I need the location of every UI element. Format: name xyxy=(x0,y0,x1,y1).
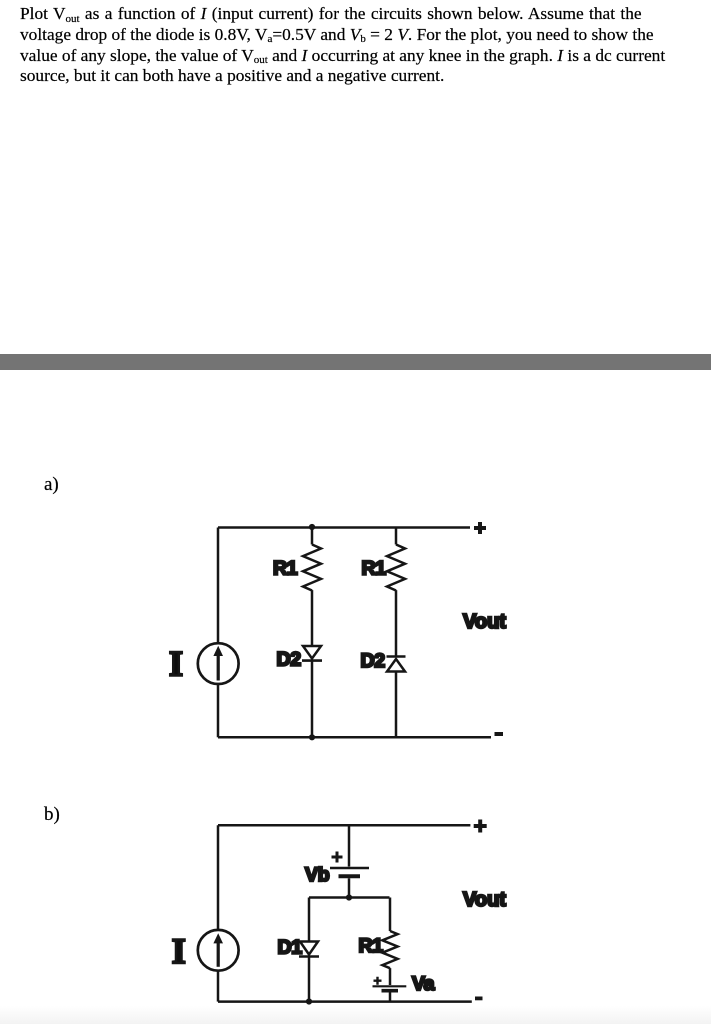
svg-text:D1: D1 xyxy=(278,937,303,959)
wire: branch1 middle xyxy=(311,590,314,646)
svg-text:I: I xyxy=(172,931,186,971)
svg-text:I: I xyxy=(169,644,183,684)
wire: D1 branch upper xyxy=(308,898,311,942)
wire: horizontal splitter b xyxy=(309,896,390,899)
wire: below Va xyxy=(389,992,392,1002)
wire: R1 branch upper xyxy=(389,898,392,932)
wire: branch2 middle xyxy=(395,590,398,656)
svg-text:D2: D2 xyxy=(277,649,302,671)
wire: branch2 lower xyxy=(395,672,398,738)
wire: top rail b xyxy=(218,824,470,827)
section label b) xyxy=(44,804,60,826)
wire: middle branch top stub b xyxy=(348,825,351,866)
bottom faint strip xyxy=(0,1006,711,1024)
minus terminal b xyxy=(475,997,483,1001)
battery Va short plate xyxy=(382,989,399,993)
battery Va long plate xyxy=(373,985,407,987)
current source arrow xyxy=(217,653,220,681)
svg-text:R1: R1 xyxy=(273,558,298,580)
node dot: branch1 bottom xyxy=(309,734,315,740)
resistor R1 (branch 2) xyxy=(387,545,405,591)
gray divider bar xyxy=(0,354,711,369)
svg-text:R1: R1 xyxy=(362,558,387,580)
svg-text:R1: R1 xyxy=(359,935,384,957)
wire: left vertical b xyxy=(217,825,220,930)
minus terminal a xyxy=(495,732,504,736)
node dot: D1 bottom xyxy=(306,998,312,1004)
svg-text:Vout: Vout xyxy=(463,889,506,911)
battery Vb long plate xyxy=(330,867,369,870)
svg-text:Vout: Vout xyxy=(463,611,506,633)
diode D1 (pointing down) xyxy=(300,942,318,955)
battery Vb short plate xyxy=(339,874,361,878)
section label a) xyxy=(44,474,59,496)
svg-text:Vb: Vb xyxy=(305,864,330,886)
diode D2 (branch 1, pointing down) xyxy=(303,646,321,659)
wire: branch1 upper stub xyxy=(311,527,314,545)
wire: D1 branch lower xyxy=(308,957,311,1002)
plus sign Va xyxy=(374,977,382,985)
problem statement paragraph xyxy=(20,4,710,87)
node dot: below Vb xyxy=(346,894,352,900)
wire: bottom rail a xyxy=(218,736,491,739)
node dot: branch1 top xyxy=(309,524,315,530)
wire: left vertical a xyxy=(217,528,220,644)
resistor R1 (circuit b) xyxy=(382,931,397,968)
wire: top rail a xyxy=(218,526,470,529)
wire: branch1 lower xyxy=(311,661,314,738)
current source arrow b xyxy=(217,941,220,967)
wire: branch2 upper stub xyxy=(395,527,398,545)
wire: bottom rail b xyxy=(218,1000,472,1003)
svg-text:D2: D2 xyxy=(361,650,386,672)
resistor R1 (branch 1) xyxy=(303,545,321,591)
diode D2 (branch 2, pointing up) xyxy=(387,655,406,658)
wire: below battery Vb xyxy=(348,878,351,897)
svg-text:Va: Va xyxy=(412,973,435,995)
wire: between R1 and Va xyxy=(389,968,392,985)
plus terminal b xyxy=(474,820,487,833)
plus terminal a xyxy=(474,522,486,534)
current source U1 circle xyxy=(198,643,239,684)
plus sign Vb xyxy=(332,852,343,863)
current source U2 circle xyxy=(198,930,239,971)
